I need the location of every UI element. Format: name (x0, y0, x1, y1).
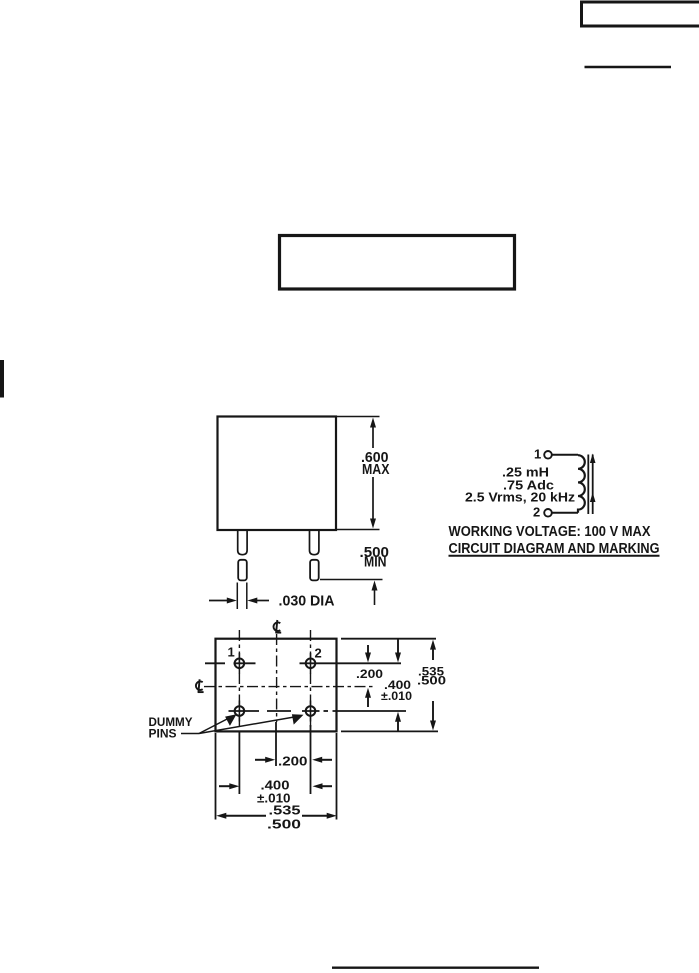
svg-text:2: 2 (533, 505, 540, 520)
svg-text:.030 DIA: .030 DIA (279, 594, 336, 610)
svg-text:±.010: ±.010 (381, 691, 412, 703)
svg-text:.535: .535 (269, 803, 301, 818)
svg-text:.500: .500 (417, 676, 446, 688)
svg-text:.200: .200 (356, 669, 383, 681)
svg-text:.200: .200 (278, 754, 308, 769)
svg-text:MAX: MAX (362, 462, 390, 478)
svg-text:WORKING VOLTAGE: 100 V MAX: WORKING VOLTAGE: 100 V MAX (449, 524, 651, 540)
svg-text:.500: .500 (267, 817, 301, 832)
svg-text:MIN: MIN (364, 555, 387, 571)
svg-text:PINS: PINS (149, 727, 177, 741)
svg-text:2.5 Vrms, 20 kHz: 2.5 Vrms, 20 kHz (465, 491, 575, 505)
svg-text:1: 1 (228, 645, 235, 660)
svg-text:.25 mH: .25 mH (502, 466, 549, 480)
svg-text:2: 2 (315, 646, 322, 661)
svg-text:1: 1 (534, 447, 541, 462)
svg-text:CIRCUIT DIAGRAM AND MARKING: CIRCUIT DIAGRAM AND MARKING (449, 541, 660, 557)
